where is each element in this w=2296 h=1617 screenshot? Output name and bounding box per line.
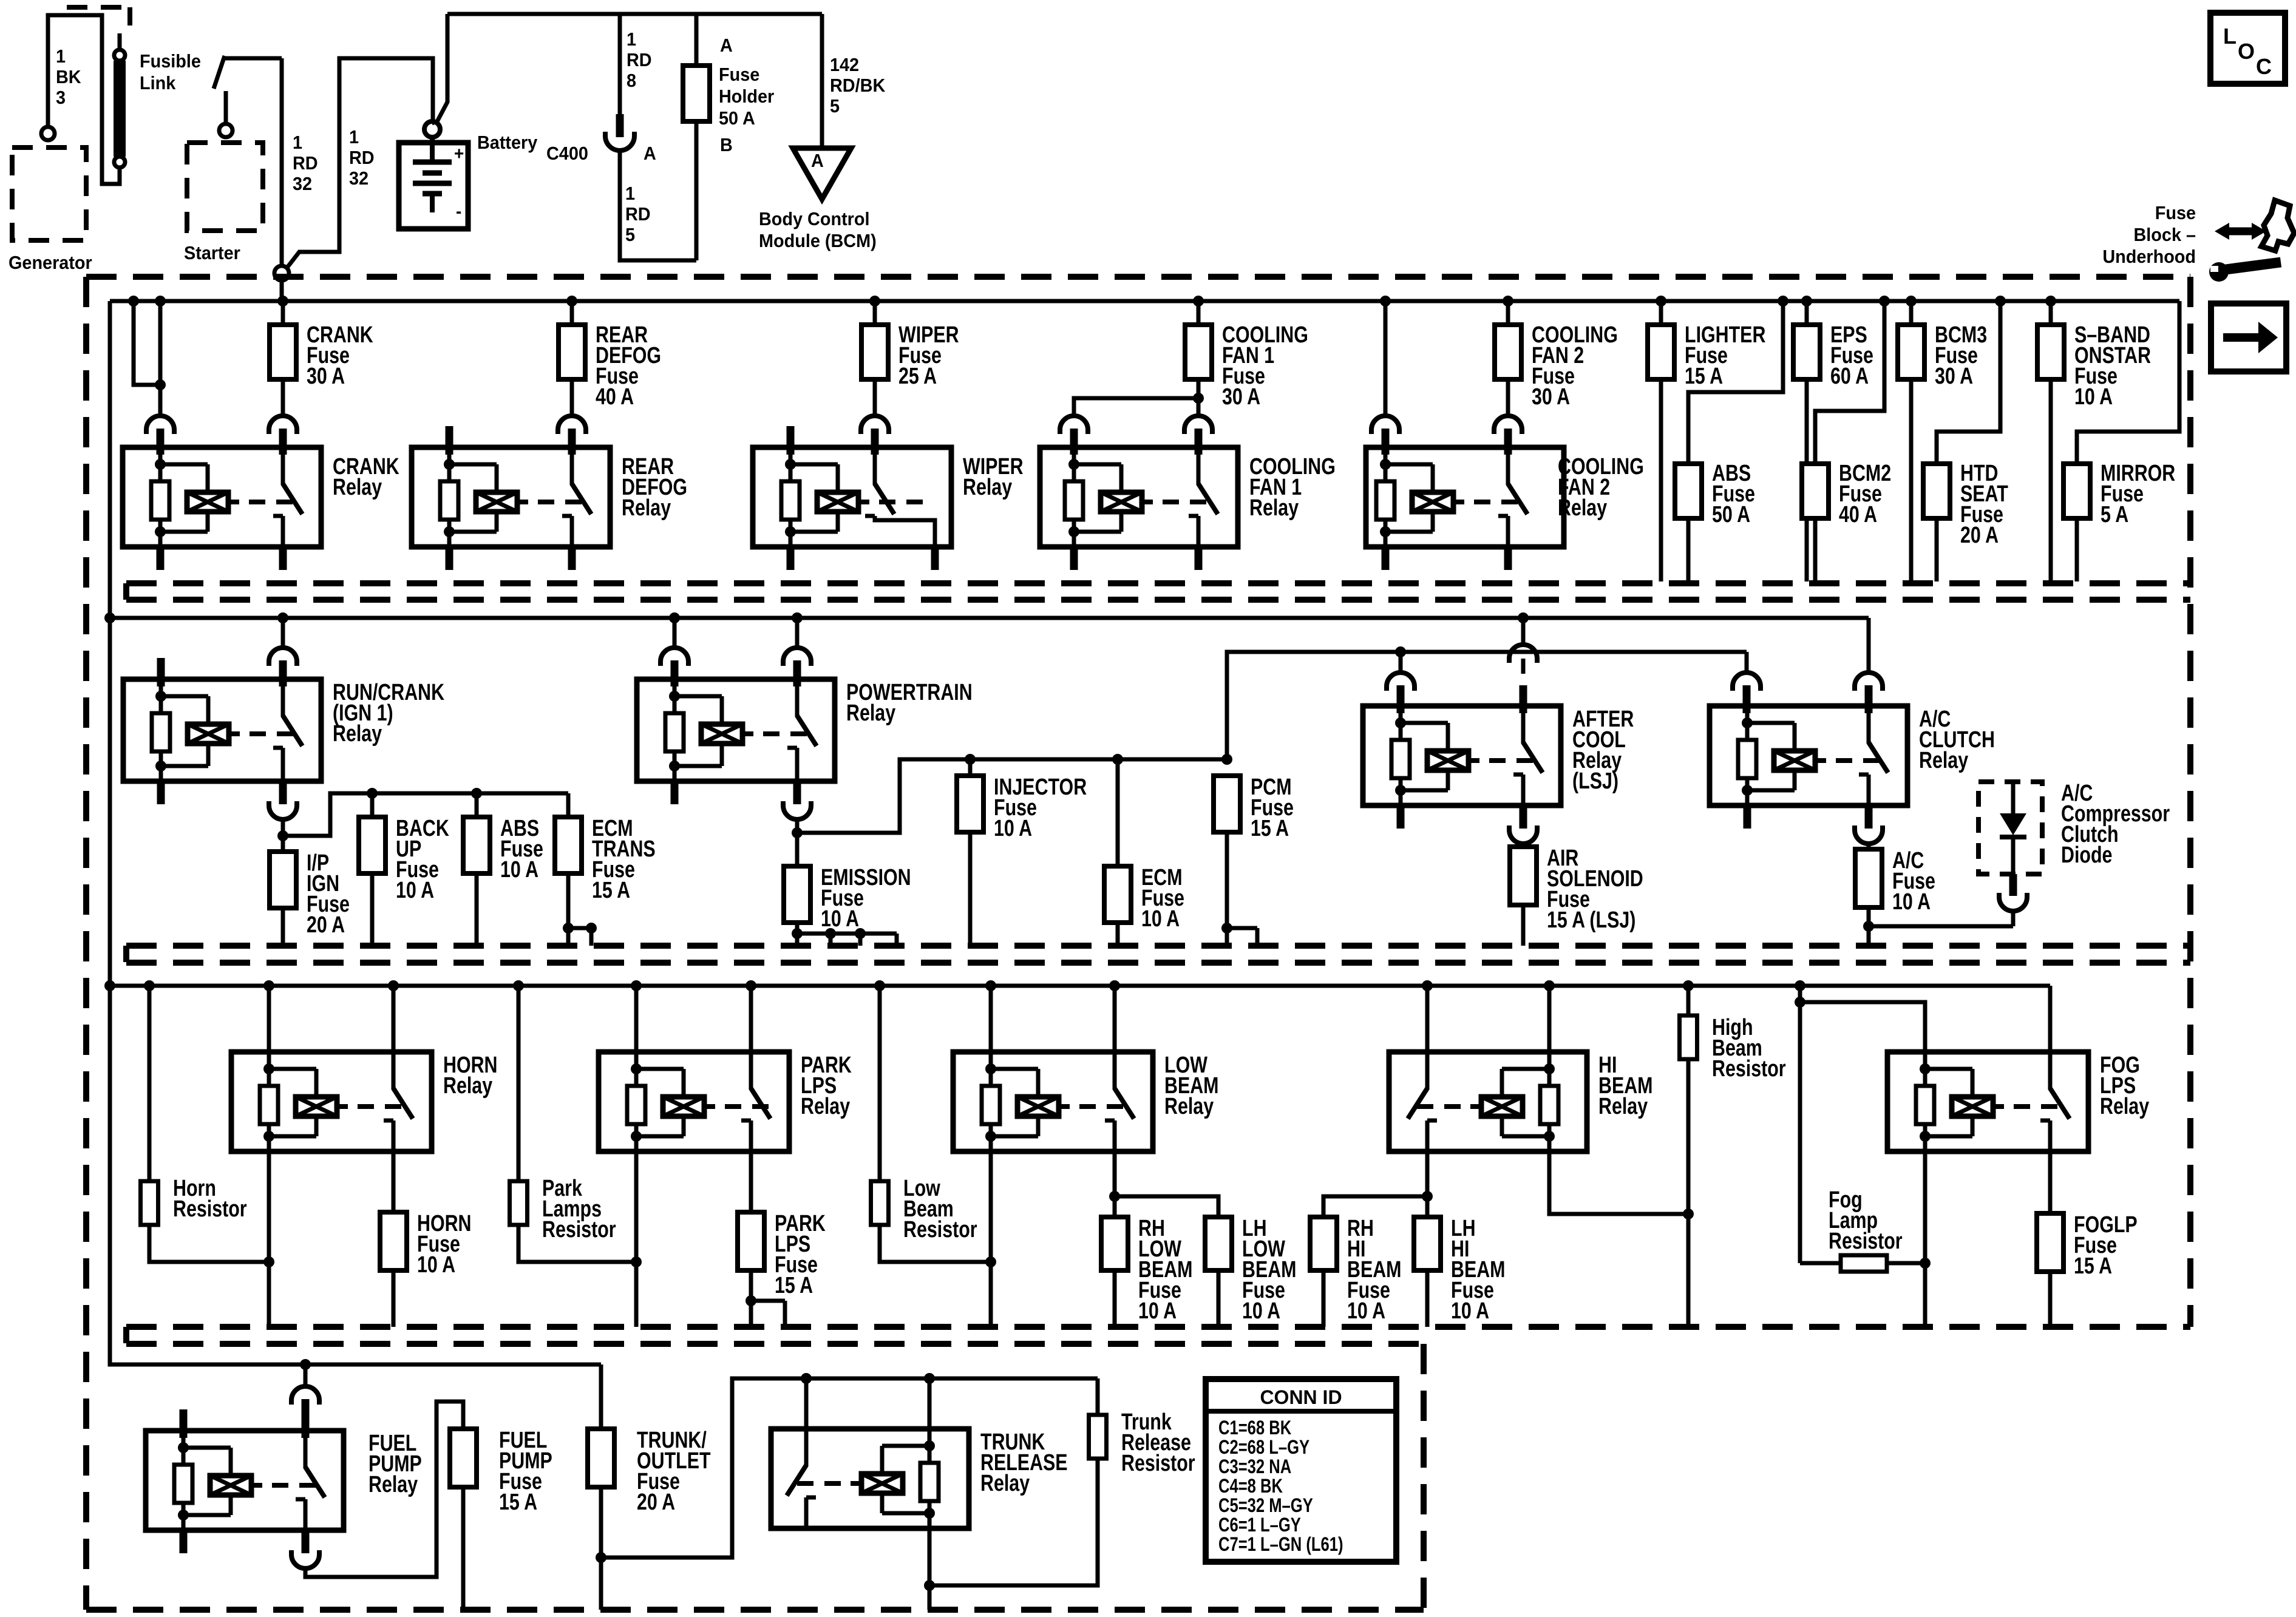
svg-text:+: + xyxy=(454,144,464,164)
wire BCM2 40A feed jog xyxy=(1815,301,1884,464)
row1 bus junction at x=466 xyxy=(277,296,288,307)
svg-text:10 A: 10 A xyxy=(1242,1298,1280,1324)
wire run/crank output to fuse rail xyxy=(283,793,568,836)
resistor Trunk Release Resistor xyxy=(1089,1415,1107,1459)
wire park lps coil feed xyxy=(634,986,639,1052)
diode branch riser xyxy=(2011,911,2016,926)
svg-text:5: 5 xyxy=(830,96,840,117)
row2 bus junction at x=181 xyxy=(104,612,115,623)
node ecm fuse tap xyxy=(1112,754,1123,765)
connector arc powertrain coil xyxy=(661,648,688,662)
row3 bus junction at x=1632 xyxy=(985,980,996,991)
relay FOG LPS xyxy=(1887,1052,2088,1151)
node back up fuse tap xyxy=(367,788,378,799)
svg-text:15 A: 15 A xyxy=(499,1490,537,1515)
fuse FUEL PUMP 15A xyxy=(450,1429,477,1487)
wire hi beam coil output xyxy=(1549,1151,1688,1214)
pin stub wiper coil xyxy=(787,426,795,455)
wire horn coil output xyxy=(267,1151,271,1327)
row2/row3 dashed separator upper xyxy=(126,943,2190,949)
wire high beam resistor output xyxy=(1686,1059,1691,1327)
connector arc crank switch xyxy=(269,416,297,430)
relay COOLING FAN 2 xyxy=(1366,447,1564,547)
row1 bus junction at x=2484 xyxy=(1503,296,1513,307)
fuse holder 50 A fuse xyxy=(683,66,710,121)
svg-text:10 A: 10 A xyxy=(396,878,434,903)
pin stub below run/crank switch xyxy=(279,781,287,804)
pin stub fan1 switch xyxy=(1195,429,1203,455)
A/C compressor clutch diode dashed box xyxy=(1978,782,2042,874)
svg-text:10 A: 10 A xyxy=(2074,384,2113,410)
svg-text:A: A xyxy=(644,143,656,164)
row3 bus junction at x=1237 xyxy=(746,980,756,991)
pin stubs below REAR DEFOG relay xyxy=(446,547,453,570)
wire park lps switch to fuse xyxy=(749,1151,753,1212)
wire powertrain switch feed xyxy=(795,618,800,647)
row3 bus junction at x=443 xyxy=(263,980,274,991)
wire powertrain output to injector rail xyxy=(797,759,1227,833)
svg-text:Relay: Relay xyxy=(801,1094,850,1119)
splice fork below PCM fuse xyxy=(1221,923,1232,934)
svg-text:Resistor: Resistor xyxy=(1121,1451,1195,1476)
relay COOLING FAN 1 xyxy=(1040,447,1238,547)
wire HTD SEAT feed jog xyxy=(1937,301,2000,464)
pin stub below fuel pump coil xyxy=(180,1530,188,1553)
svg-text:1: 1 xyxy=(293,132,302,153)
pin stubs below COOLING FAN 1 relay xyxy=(1070,547,1078,570)
svg-text:Relay: Relay xyxy=(443,1073,492,1099)
wire fuel pump switch output xyxy=(305,1402,463,1577)
wire run/crank switch feed xyxy=(281,618,285,647)
pin stub aftercool switch xyxy=(1520,685,1527,713)
relay PARK LPS xyxy=(599,1052,789,1151)
connector arc run/crank switch xyxy=(269,648,297,662)
fuse BCM2 40A xyxy=(1802,464,1829,518)
pin stub fan2 switch xyxy=(1504,429,1512,455)
svg-text:Resistor: Resistor xyxy=(903,1217,977,1242)
wire low beam coil feed xyxy=(989,986,993,1052)
connector arc below aftercool switch xyxy=(1509,830,1537,844)
svg-text:-: - xyxy=(456,202,461,222)
svg-text:Relay: Relay xyxy=(1919,748,1968,773)
svg-text:10 A: 10 A xyxy=(417,1252,455,1278)
relay WIPER xyxy=(753,447,951,547)
connector arc fan2 coil xyxy=(1371,416,1399,430)
fuse S-BAND ONSTAR 10A xyxy=(2049,301,2053,325)
row4 dashed border right xyxy=(1421,1344,1427,1610)
pin stub fuel pump coil xyxy=(180,1409,188,1438)
relay HI BEAM (mirrored) xyxy=(1389,1052,1587,1151)
wire ac clutch switch feed xyxy=(1867,618,1871,673)
crossover hop aftercool switch wire xyxy=(1509,645,1537,659)
pin stub aftercool coil xyxy=(1397,685,1405,713)
pin stub fan2 coil xyxy=(1382,429,1390,455)
svg-text:Module (BCM): Module (BCM) xyxy=(759,231,877,251)
LOC legend box xyxy=(2210,13,2285,84)
svg-text:Resistor: Resistor xyxy=(173,1196,247,1222)
svg-text:32: 32 xyxy=(293,174,312,194)
wire trunk release coil output xyxy=(928,1528,932,1610)
fuse LIGHTER 15A xyxy=(1659,301,1663,325)
pin stub below aftercool coil xyxy=(1397,805,1405,829)
wire aftercool coil feed xyxy=(1399,652,1403,673)
svg-text:15 A: 15 A xyxy=(1685,364,1723,389)
relay A/C CLUTCH xyxy=(1710,706,1907,805)
resistor Park Lamps Resistor xyxy=(510,1181,528,1225)
row1 bus junction at x=1441 xyxy=(869,296,880,307)
wire low beam switch feed xyxy=(1113,986,1117,1052)
fuse AIR SOLENOID 15A (LSJ) xyxy=(1521,844,1526,847)
connector arc fan1 switch xyxy=(1184,416,1212,430)
svg-text:3: 3 xyxy=(56,87,66,108)
pin stub below aftercool switch xyxy=(1520,805,1527,829)
connector arc crank coil xyxy=(146,416,174,430)
wire hi beam fuse rail xyxy=(1323,1196,1427,1217)
wire trunk release resistor return xyxy=(929,1459,1098,1585)
svg-text:Generator: Generator xyxy=(8,253,92,273)
battery positive terminal ring xyxy=(424,121,440,137)
pin stub powertrain coil xyxy=(671,660,679,686)
relay AFTER COOL (LSJ) xyxy=(1363,706,1561,805)
pin stub below ac clutch switch xyxy=(1865,805,1873,829)
svg-text:15 A: 15 A xyxy=(592,878,630,903)
row3 bus junction at x=2351 xyxy=(1422,980,1433,991)
pin stubs below COOLING FAN 2 relay xyxy=(1382,547,1390,570)
pin stub wiper switch xyxy=(871,429,879,455)
svg-text:Relay: Relay xyxy=(980,1471,1030,1496)
svg-text:Relay: Relay xyxy=(369,1472,418,1497)
svg-text:5: 5 xyxy=(625,225,635,245)
fuse TRUNK/OUTLET 20A xyxy=(588,1429,614,1487)
svg-text:25 A: 25 A xyxy=(898,364,937,389)
connector arc below ac clutch switch xyxy=(1855,830,1883,844)
svg-text:Relay: Relay xyxy=(622,495,671,521)
svg-text:Relay: Relay xyxy=(1598,1094,1648,1119)
wire MIRROR feed jog xyxy=(2077,301,2179,464)
wire horn switch feed xyxy=(392,986,396,1052)
wire ac fuse output to diode xyxy=(1869,924,2013,929)
svg-text:142: 142 xyxy=(830,55,859,75)
row4 feed wire xyxy=(110,986,601,1364)
resistor Horn Resistor xyxy=(141,1181,158,1225)
row3 bus junction at x=2965 xyxy=(1795,980,1805,991)
wire fog coil feed top xyxy=(1800,1002,1925,1052)
svg-text:1: 1 xyxy=(56,46,66,67)
svg-text:Resistor: Resistor xyxy=(542,1217,616,1242)
row4 dashed border bottom xyxy=(86,1607,1424,1613)
svg-text:30 A: 30 A xyxy=(1532,384,1570,410)
svg-text:Relay: Relay xyxy=(1558,495,1607,521)
wire starter feed down to junction xyxy=(280,58,284,266)
svg-text:C1=68 BK: C1=68 BK xyxy=(1218,1417,1291,1439)
svg-text:40 A: 40 A xyxy=(596,384,634,410)
wire fuse holder branch xyxy=(695,14,699,260)
battery cell symbol xyxy=(430,137,435,162)
fuse ECM 10A xyxy=(1116,759,1120,866)
row2 bus junction at x=1111 xyxy=(669,612,680,623)
svg-text:1: 1 xyxy=(349,127,359,147)
svg-text:Relay: Relay xyxy=(846,700,895,726)
connector arc below run/crank switch xyxy=(269,805,297,819)
connector arc aftercool coil xyxy=(1387,673,1415,686)
fuse ECM TRANS 15A xyxy=(566,793,571,817)
svg-text:30 A: 30 A xyxy=(1222,384,1260,410)
next-page arrow box xyxy=(2211,303,2286,371)
svg-text:Relay: Relay xyxy=(963,475,1012,500)
fuse LH LOW BEAM 10A xyxy=(1205,1217,1232,1270)
row1 bus junction at x=264 xyxy=(155,296,166,307)
svg-text:Resistor: Resistor xyxy=(1829,1229,1903,1254)
generator terminal ring xyxy=(41,127,55,140)
svg-text:Starter: Starter xyxy=(184,243,240,263)
fuse RH HI BEAM 10A xyxy=(1310,1217,1337,1270)
row1 bus junction at x=942 xyxy=(566,296,577,307)
row2 bus junction at x=1313 xyxy=(792,612,803,623)
pin stub below ac clutch coil xyxy=(1744,805,1751,829)
svg-text:RD: RD xyxy=(625,204,651,225)
fuse ABS 10A (row2) xyxy=(475,793,479,817)
wire low beam fuse rail xyxy=(1115,1196,1218,1217)
resistor Fog Lamp Resistor (horizontal) xyxy=(1841,1255,1887,1272)
connector arc fuel pump switch xyxy=(291,1386,319,1400)
node trunk/outlet output xyxy=(596,1552,606,1563)
wire trunk release switch feed xyxy=(804,1378,809,1429)
row2/row3 dashed separator lower xyxy=(126,960,2190,966)
row1 bus junction at x=2976 xyxy=(1801,296,1812,307)
svg-text:Relay: Relay xyxy=(2100,1094,2149,1119)
row1 bus junction at x=1974 xyxy=(1193,296,1204,307)
svg-text:Relay: Relay xyxy=(333,721,382,747)
svg-text:8: 8 xyxy=(627,70,636,91)
svg-text:50 A: 50 A xyxy=(719,108,755,129)
row2 bus junction at x=466 xyxy=(277,612,288,623)
row1 bus wire xyxy=(110,299,2179,303)
svg-text:10 A: 10 A xyxy=(821,906,859,932)
svg-text:Underhood: Underhood xyxy=(2102,246,2196,267)
fuse COOLING FAN 1 30A xyxy=(1197,301,1201,325)
wire ac clutch coil feed xyxy=(1745,652,1749,673)
pin stub run/crank coil xyxy=(157,658,165,686)
wire trunk/outlet fuse feed xyxy=(599,1364,603,1429)
svg-text:RD/BK: RD/BK xyxy=(830,75,886,96)
pin stub below powertrain switch xyxy=(793,781,801,804)
pin stub crank coil xyxy=(157,429,165,455)
wire hi beam switch feed xyxy=(1425,986,1430,1052)
svg-text:5 A: 5 A xyxy=(2101,502,2128,527)
svg-text:RD: RD xyxy=(349,147,375,168)
row1/row2 dashed separator upper xyxy=(126,580,2190,586)
relay FUEL PUMP xyxy=(146,1431,344,1530)
fuse A/C 10A xyxy=(1867,844,1871,849)
svg-text:Relay: Relay xyxy=(1164,1094,1214,1119)
svg-text:10 A: 10 A xyxy=(1141,906,1180,932)
fuse CRANK 30A xyxy=(281,301,285,325)
park lamps resistor drop wire xyxy=(517,986,521,1181)
pin stub below powertrain coil xyxy=(671,781,679,804)
pin stubs below WIPER relay xyxy=(787,547,795,570)
wire fan1 coil jog xyxy=(1074,398,1198,415)
fog lamp resistor loop bottom xyxy=(1800,1261,1925,1266)
wire hi beam switch output xyxy=(1425,1151,1430,1217)
svg-text:60 A: 60 A xyxy=(1830,364,1869,389)
svg-text:L: L xyxy=(2223,24,2237,49)
fuse I/P IGN 20A xyxy=(270,852,296,908)
wire fuel pump switch feed xyxy=(304,1364,308,1386)
svg-text:15 A: 15 A xyxy=(1251,816,1289,841)
fuse EMISSION 10A xyxy=(784,866,810,923)
svg-text:B: B xyxy=(720,135,733,155)
relay HORN xyxy=(231,1052,432,1151)
row3 bus junction at x=1836 xyxy=(1109,980,1120,991)
svg-text:50 A: 50 A xyxy=(1712,502,1750,527)
wire 1 RD 8 down to C400 xyxy=(618,14,622,115)
wire 142 RD/BK 5 to BCM xyxy=(820,14,824,148)
row3 bus junction at x=2552 xyxy=(1544,980,1555,991)
wire battery feed 1 RD 32 xyxy=(287,58,435,268)
wire aftercool switch feed xyxy=(1521,618,1526,645)
fuse ABS 50A xyxy=(1675,464,1702,518)
starter fusible link wire xyxy=(224,91,228,124)
row3 bus junction at x=1449 xyxy=(874,980,885,991)
connector arc below diode xyxy=(1999,897,2027,911)
wire fog lps switch feed xyxy=(2048,986,2053,1052)
relay LOW BEAM xyxy=(953,1052,1153,1151)
wire low beam coil output xyxy=(989,1151,993,1327)
pin stub powertrain switch xyxy=(793,660,801,686)
junction ring S200 xyxy=(274,266,289,280)
svg-text:20 A: 20 A xyxy=(307,912,345,938)
splice fork below ECM TRANS fuse xyxy=(563,923,574,934)
row3 bus junction at x=181 xyxy=(104,980,115,991)
row1 bus junction at x=2736 xyxy=(1656,296,1666,307)
row1 bus junction at x=3378 xyxy=(2045,296,2056,307)
row3 bus junction at x=648 xyxy=(388,980,399,991)
wire park lps coil output xyxy=(634,1151,639,1327)
crank feed loop wire xyxy=(134,301,160,385)
starter terminal ring xyxy=(219,124,233,137)
node trunk release coil tap xyxy=(924,1373,935,1384)
row1 bus junction at x=2282 xyxy=(1380,296,1391,307)
connector arc below powertrain switch xyxy=(783,805,811,819)
svg-text:15 A (LSJ): 15 A (LSJ) xyxy=(1547,907,1635,933)
node ac fuse output xyxy=(1863,921,1874,932)
svg-text:40 A: 40 A xyxy=(1839,502,1877,527)
CONN ID table box xyxy=(1206,1379,1396,1562)
svg-text:10 A: 10 A xyxy=(1347,1298,1385,1324)
wire crank coil feed xyxy=(158,385,163,415)
wire horn resistor return xyxy=(149,1225,269,1262)
svg-text:Holder: Holder xyxy=(719,86,775,107)
wire park lamps resistor return xyxy=(518,1225,636,1262)
svg-text:10 A: 10 A xyxy=(1138,1298,1177,1324)
row1 bus junction at x=2937 xyxy=(1778,296,1788,307)
wire horn switch to fuse xyxy=(392,1151,396,1212)
pin stub ac clutch coil xyxy=(1743,685,1751,713)
svg-text:C7=1 L–GN (L61): C7=1 L–GN (L61) xyxy=(1218,1534,1343,1555)
pin stub run/crank switch xyxy=(279,660,287,686)
wire riser to AC coil line xyxy=(1227,652,1747,759)
row2 bus junction at x=2509 xyxy=(1518,612,1529,623)
resistor High Beam Resistor xyxy=(1680,1015,1697,1059)
wire generator lead 1 BK 3 xyxy=(48,15,120,184)
fuse PARK LPS 15A xyxy=(738,1212,764,1270)
fuse block outer dashed border top xyxy=(86,274,2190,280)
pin stub below run/crank coil xyxy=(157,781,165,804)
svg-text:C2=68 L–GY: C2=68 L–GY xyxy=(1218,1437,1309,1458)
fusible link element xyxy=(118,33,122,50)
fuse INJECTOR 10A xyxy=(968,759,973,776)
row3 bus junction at x=2781 xyxy=(1683,980,1694,991)
connector arc ac clutch coil xyxy=(1733,673,1761,686)
splice fork below EMISSION fuse xyxy=(792,928,803,939)
wire aftercool switch feed lower xyxy=(1521,659,1526,674)
fuse RH LOW BEAM 10A xyxy=(1101,1217,1128,1270)
svg-text:Link: Link xyxy=(140,73,176,93)
node pcm riser tap xyxy=(1221,754,1232,765)
wire fan2 coil feed xyxy=(1384,301,1388,415)
svg-text:Fusible: Fusible xyxy=(140,51,201,72)
svg-text:C400: C400 xyxy=(546,143,588,164)
fuse BCM3 30A xyxy=(1909,301,1914,325)
svg-text:C6=1 L–GY: C6=1 L–GY xyxy=(1218,1514,1301,1536)
fuse BACK UP 10A xyxy=(370,793,375,817)
svg-text:Battery: Battery xyxy=(477,132,538,153)
fuse block outer dashed border left xyxy=(83,277,89,1610)
connector arc ac clutch switch xyxy=(1855,673,1883,686)
wire run/crank output node xyxy=(281,819,285,852)
trunk release resistor drop xyxy=(1096,1378,1100,1415)
svg-text:C3=32 NA: C3=32 NA xyxy=(1218,1456,1291,1477)
wire low beam resistor return xyxy=(880,1225,991,1262)
wire trunk release feeder xyxy=(601,1378,1098,1558)
low beam resistor drop wire xyxy=(878,986,882,1181)
svg-text:10 A: 10 A xyxy=(1892,889,1931,915)
row3 bus junction at x=854 xyxy=(513,980,524,991)
node fuel pump switch tap xyxy=(300,1359,311,1370)
row3 bus junction at x=246 xyxy=(144,980,155,991)
fuse HORN 10A xyxy=(380,1212,407,1270)
wire horn coil feed xyxy=(267,986,271,1052)
fuse block outer dashed border right xyxy=(2187,277,2193,1327)
svg-text:20 A: 20 A xyxy=(637,1490,675,1515)
svg-text:10 A: 10 A xyxy=(994,816,1032,841)
pin stub fan1 coil xyxy=(1070,429,1078,455)
wire fog coil feed riser xyxy=(1798,986,1802,1263)
node abs fuse tap xyxy=(471,788,482,799)
wire junction to fuse block bus xyxy=(280,280,284,302)
svg-text:CONN ID: CONN ID xyxy=(1260,1386,1342,1408)
svg-text:15 A: 15 A xyxy=(2074,1253,2112,1279)
component-view icon (arrows and wrench) xyxy=(2224,228,2257,236)
connector arc fan1 coil xyxy=(1060,416,1088,430)
resistor Low Beam Resistor xyxy=(871,1181,889,1225)
high beam resistor drop wire xyxy=(1686,986,1691,1015)
relay POWERTRAIN xyxy=(637,679,835,781)
pin stub below fuel pump switch xyxy=(302,1530,310,1553)
pin stub below diode box xyxy=(2009,874,2017,896)
svg-text:O: O xyxy=(2238,39,2255,64)
wire powertrain output node xyxy=(795,819,800,866)
connector arc wiper switch xyxy=(861,416,889,430)
svg-text:1: 1 xyxy=(627,29,636,50)
node trunk release switch tap xyxy=(801,1373,812,1384)
svg-text:Diode: Diode xyxy=(2061,842,2112,868)
pin stub rear defog switch xyxy=(568,429,576,455)
relay TRUNK RELEASE (mirrored) xyxy=(771,1429,969,1528)
wire fog coil output xyxy=(1923,1151,1927,1327)
horn resistor drop wire xyxy=(148,986,152,1181)
svg-text:Block –: Block – xyxy=(2133,225,2196,245)
